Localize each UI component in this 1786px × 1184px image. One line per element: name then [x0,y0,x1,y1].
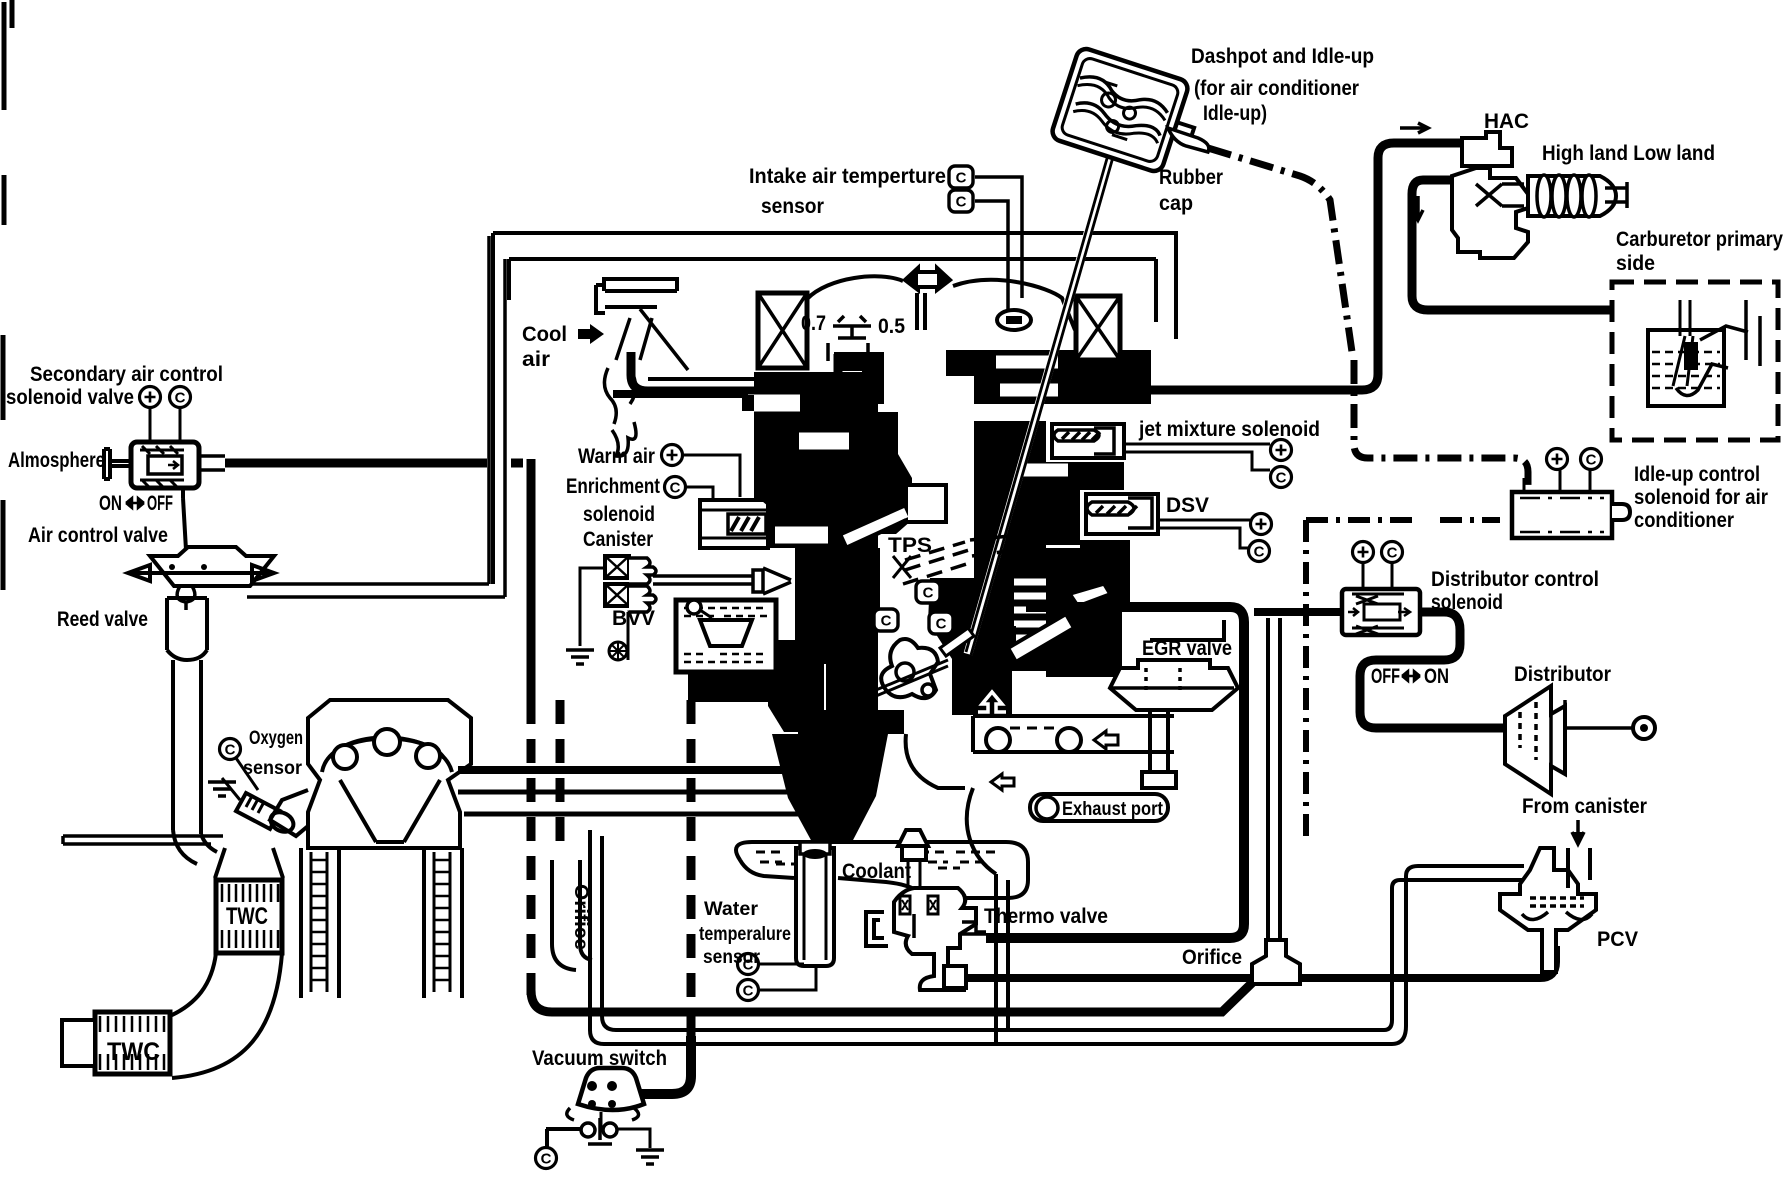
svg-text:Cool: Cool [522,323,567,346]
reed pipe elbow into manifold snout [173,830,217,864]
TPS C symbol 1 [916,581,940,603]
dash-dot hose dashpot to idle-up solenoid [1208,148,1528,492]
TWC catalyst lower box [95,1012,170,1074]
idle-up solenoid hatch [1520,498,1604,532]
carburetor body left upper black mass [754,372,878,548]
jet mixture C symbol [1271,467,1292,488]
svg-text:Water: Water [704,899,759,920]
fast idle cam rod [1008,584,1110,662]
hose HAC lower to carb primary box [1412,180,1614,310]
wing nut on air cleaner stud [905,268,950,330]
carburetor right horn corners [946,350,974,376]
svg-text:jet mixture solenoid: jet mixture solenoid [1138,418,1320,441]
water temp sensor C symbol 1 [738,954,759,975]
dash-dot horizontal to dist solenoid area [1306,517,1500,523]
cool air snorkel duct [596,279,677,313]
svg-text:Carburetor primary: Carburetor primary [1616,228,1783,251]
carburetor left base mass [768,640,824,732]
svg-text:Idle-up control: Idle-up control [1634,463,1760,486]
exhaust downpipe right [424,848,462,998]
svg-text:solenoid for air: solenoid for air [1634,486,1768,509]
HAC flow arrow [1400,123,1428,133]
svg-text:TWC: TWC [107,1038,160,1066]
manifold air pipe left pair [63,836,223,844]
TPS dashed wires [903,534,1030,584]
throttle linkage blob [852,628,974,706]
svg-text:Dashpot and Idle-up: Dashpot and Idle-up [1191,45,1374,68]
canister wire and ground [566,568,628,664]
canister X-boxes [605,556,629,606]
svg-text:TWC: TWC [226,903,268,930]
from canister arrow [1572,820,1584,846]
carburetor left mass white slots [748,403,849,535]
DSV white slot [1080,490,1166,540]
svg-text:side: side [1616,252,1655,275]
HAC valve body [1452,168,1528,258]
hose V2 bottom elbow to orifice tee line [531,981,1254,1012]
filter element X-box right [1076,296,1120,360]
water temp sensor C symbol 2 [738,980,759,1001]
svg-text:conditioner: conditioner [1634,509,1734,532]
svg-text:Vacuum switch: Vacuum switch [532,1047,667,1070]
hose secondary air solenoid to carburetor (H1) [225,459,487,468]
canister purge rod [653,568,791,594]
jet mixture wires [1124,444,1270,470]
right mass row2 left of jet slot [974,421,1046,457]
right mass white slots [996,362,1068,470]
svg-text:ESV: ESV [753,467,795,490]
float bowl [676,600,776,672]
vacuum switch body [567,1068,644,1120]
EGR hose loop from carb [986,607,1244,938]
svg-text:solenoid valve: solenoid valve [6,386,134,409]
svg-text:Warm air: Warm air [578,445,655,468]
svg-text:Coolant: Coolant [842,860,911,883]
carburetor right lower mass near EGR [928,578,1016,715]
coolant liquid dashes [756,852,996,868]
orifice vertical channel [552,700,592,970]
throttle comb white slots [1014,582,1048,638]
svg-text:Orifice: Orifice [1182,946,1242,969]
EGR valve top fitting line [1150,620,1224,640]
choke piston 0.7 0.5 detail [828,316,871,361]
svg-text:(for air conditioner: (for air conditioner [1194,77,1359,100]
intake air temp sensor boxed C 2 [949,190,973,212]
water temp sensor C wires [760,964,816,990]
reed valve pipe [167,598,207,834]
choke area black corners [834,352,884,404]
exhaust manifold dome [322,738,452,773]
secondary air control solenoid valve C symbol [170,387,191,408]
oxygen sensor C symbol [220,739,241,760]
carb primary nozzle detail [1673,300,1760,396]
TPS C symbol 2 [874,609,898,631]
thin return line air control valve loop upper [219,236,489,584]
intake air sensor wire 2 [975,201,1008,310]
svg-text:High land Low land: High land Low land [1542,142,1715,165]
intake air sensor wire 1 [975,177,1022,298]
enrichment C symbol [665,477,686,498]
canister body plugs [629,558,656,612]
exhaust port oval box [1030,794,1168,821]
exhaust crossover channel [973,716,1174,752]
thermo lower port hose thick [958,946,1556,978]
scan edge artifacts left border [3,0,12,590]
carb horn top thick band [613,390,852,398]
hose V2 dashed section [527,700,536,995]
OFF ON double arrow right [1402,671,1420,681]
svg-text:Thermo valve: Thermo valve [984,905,1108,928]
distributor vacuum advance body [1505,686,1565,794]
thin return line air control valve loop lower [247,259,505,597]
svg-text:Intake air temperture: Intake air temperture [749,165,946,188]
secondary air control solenoid valve body [131,442,199,488]
hose carb to HAC thick [1110,143,1462,390]
carburetor primary side dashed box [1612,282,1778,440]
svg-text:Rubber: Rubber [1159,166,1223,189]
PCV return double line full run [590,830,1524,1044]
TPS pointer [893,556,911,578]
throttle diagonal rod [841,505,906,547]
HAC bellows [1528,175,1627,217]
svg-text:Reed valve: Reed valve [57,608,148,631]
solenoid to air control valve wire [183,488,186,550]
carburetor right lower mass 2 [826,540,1130,712]
carburetor right upper mass row1 [974,350,1151,404]
valve outlet stub [199,456,225,470]
svg-text:EGR valve: EGR valve [1142,637,1232,660]
vacuum switch C wire [546,1129,580,1147]
svg-text:sensor: sensor [243,758,303,779]
air cleaner right dome arc [953,280,1075,330]
svg-text:From canister: From canister [1522,795,1647,818]
svg-text:HAC: HAC [1484,110,1529,133]
carburetor bottom taper mass [772,734,888,842]
throttle white square box [906,485,946,522]
vacuum switch elbow [628,1036,691,1094]
warm air flapper door [616,309,688,370]
dist solenoid right U-hose to distributor [1360,612,1505,728]
svg-text:solenoid: solenoid [1431,591,1503,614]
svg-text:ON: ON [1424,665,1449,688]
oxygen sensor wire [236,758,258,790]
ON OFF double arrow left [126,498,144,508]
secondary air control solenoid valve plus symbol [140,387,161,408]
coolant jacket outline [736,842,1028,898]
svg-text:temperalure: temperalure [699,924,791,945]
dist solenoid left port line [1254,608,1342,616]
ESV valve body [700,500,768,548]
EGR valve stem [1142,710,1176,788]
vacuum switch ground wire [618,1129,664,1164]
oxygen sensor plug [236,793,297,836]
svg-text:0.5: 0.5 [878,315,905,338]
dashpot pointer needle [966,99,1129,655]
carb base outline curves [906,734,996,874]
jet mixture solenoid body [1052,424,1124,458]
svg-text:0.7: 0.7 [801,312,826,335]
BVV star symbol [609,642,627,660]
wires from symbols to valve [150,408,180,444]
dashpot and idle-up unit [1050,46,1207,179]
thermo valve body [894,830,976,990]
HAC down arrow [1413,196,1423,220]
hose H1 continues right of duct [511,459,523,468]
EGR up arrow white on black [978,692,1006,712]
PCV valve body [1500,848,1596,972]
vacuum switch contacts [581,1112,617,1144]
TPS C symbol 3 [929,612,953,634]
svg-text:Canister: Canister [583,528,653,551]
right mass row5 column [974,545,1046,671]
TWC upper inlet funnel [215,848,283,878]
intake air temp sensor boxed C 1 [949,166,973,188]
carburetor left port stubs [742,395,754,543]
DSV wires [1158,520,1250,548]
idle-up solenoid body [1512,470,1630,538]
manifold left snout [270,790,308,836]
carb base to bottom loop verticals [996,874,1008,1044]
carb primary float bowl [1648,330,1724,406]
vacuum switch dashed vertical hose V3 [687,700,696,1040]
exhaust elbow TWC1 to TWC2 [170,953,282,1078]
svg-text:Almosphere: Almosphere [8,449,105,472]
hose corner down V2 [527,459,536,700]
distributor control solenoid body [1342,589,1420,635]
svg-text:ON: ON [99,492,122,515]
distributor shaft and knob [1565,717,1655,739]
right mass row3 band [974,457,1124,490]
svg-text:sensor: sensor [761,195,824,218]
intake air temperature sensor oval [997,310,1031,330]
manifold inner V [340,780,440,842]
cool air block arrow [578,324,604,344]
jet mixture solenoid white slot [1046,419,1160,462]
warm air squiggle hand [604,368,636,456]
TWC catalyst upper box [216,880,282,953]
dist solenoid wires [1363,563,1392,589]
exhaust manifold outline [308,700,471,848]
svg-text:Idle-up): Idle-up) [1203,102,1267,125]
idle-up control solenoid C symbol [1581,449,1602,470]
dash-dot vertical idle-up to coolant [1303,520,1309,840]
PCV top pipe [1568,848,1590,888]
svg-text:air: air [522,348,550,371]
svg-text:Secondary air control: Secondary air control [30,363,223,386]
svg-text:BVV: BVV [612,607,655,630]
EGR left arrow below [991,774,1014,790]
air cleaner left dome arc [807,276,903,299]
dashpot rubber cap nozzle [1168,128,1209,152]
TWC lower end cap [62,1020,95,1066]
svg-text:PCV: PCV [1597,928,1638,951]
air control valve lower stem [177,586,195,610]
warm air plus symbol [662,445,683,466]
air cleaner outer housing [493,233,1176,584]
orifice tee [1252,940,1300,984]
filter element X-box right redraw [1076,296,1120,360]
idle-up control solenoid plus symbol [1547,449,1568,470]
exhaust manifold port circles [333,729,440,769]
svg-text:OFF: OFF [147,492,173,515]
svg-text:Exhaust port: Exhaust port [1062,799,1164,820]
atmosphere inlet T fitting [104,449,131,479]
right mass row4 left of DSV slot [974,490,1080,545]
jet mixture plus symbol [1271,440,1292,461]
svg-text:Distributor control: Distributor control [1431,568,1599,591]
carburetor bottom band [688,674,904,734]
svg-text:DSV: DSV [1166,494,1209,517]
DSV plus symbol [1251,514,1272,535]
HAC top fitting blocks [1462,132,1512,166]
three horizontal air injection lines [458,770,828,814]
svg-text:cap: cap [1159,192,1193,215]
svg-text:Orifice: Orifice [570,884,591,950]
vacuum switch C symbol [536,1148,557,1169]
thermo lower port fitting [944,966,966,988]
air control valve body [128,547,274,586]
svg-text:Distributor: Distributor [1514,663,1611,686]
carburetor left lower mass [795,548,880,664]
thermo upper port hose to EGR loop [962,922,986,934]
distributor control solenoid C symbol [1382,542,1403,563]
svg-text:Air control valve: Air control valve [28,524,168,547]
warm air duct U channel thick [631,352,838,391]
wires from warm air symbols to ESV [683,455,740,499]
svg-text:sensor: sensor [703,947,761,968]
ESV pointer line [755,493,769,505]
svg-text:Enrichment: Enrichment [566,475,660,498]
orifice stem vertical [1268,618,1280,948]
distributor control solenoid plus symbol [1353,542,1374,563]
svg-text:Oxygen: Oxygen [249,728,303,749]
oxygen sensor ground [208,778,240,800]
exhaust downpipe left [301,848,339,998]
filter element X-box left [758,293,807,368]
water temperature sensor body [796,842,834,966]
svg-text:solenoid: solenoid [583,503,655,526]
DSV body [1086,494,1158,534]
svg-text:OFF: OFF [1371,665,1400,688]
carburetor venturi wall column [858,412,912,534]
DSV C symbol [1249,541,1270,562]
svg-text:TPS: TPS [888,534,932,557]
thermo valve left bracket [866,912,888,946]
EGR valve body [1110,660,1238,710]
